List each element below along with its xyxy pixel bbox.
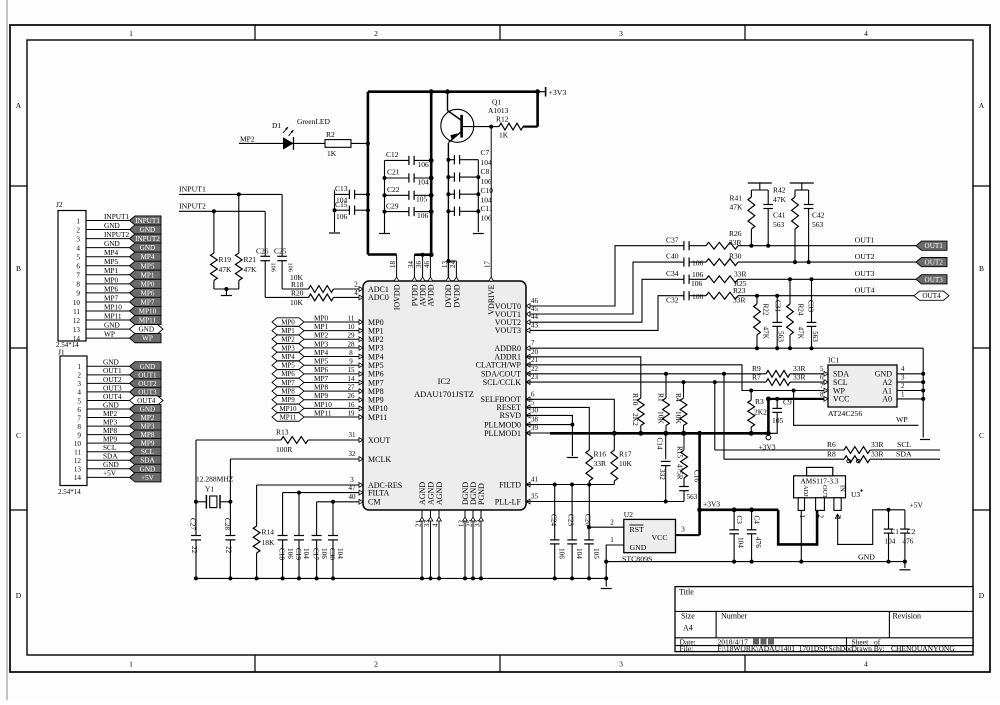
svg-text:INPUT2: INPUT2 [179,202,206,211]
svg-text:SDA: SDA [140,457,155,465]
svg-text:C17: C17 [311,548,319,560]
svg-text:R19: R19 [219,255,232,264]
svg-text:12: 12 [74,457,82,465]
svg-text:MP2: MP2 [140,414,154,422]
svg-text:105: 105 [592,548,600,559]
svg-text:1K: 1K [327,149,337,158]
svg-text:OUT3: OUT3 [138,388,157,396]
svg-text:29: 29 [348,332,356,340]
svg-text:8: 8 [77,423,81,431]
svg-text:MP9: MP9 [281,396,295,404]
svg-text:WP: WP [142,335,153,343]
svg-text:10: 10 [73,299,81,307]
svg-text:OUT1: OUT1 [138,371,157,379]
svg-text:22: 22 [190,546,198,554]
svg-text:4: 4 [901,365,905,373]
svg-text:8: 8 [76,281,80,289]
svg-text:10: 10 [348,323,356,331]
svg-text:34: 34 [407,261,415,269]
svg-text:C27: C27 [189,518,197,530]
svg-text:6: 6 [76,263,80,271]
svg-text:F:\18WORK\ADAU1401_1701DSP.Sch: F:\18WORK\ADAU1401_1701DSP.SchDoc [718,644,853,653]
svg-text:R8: R8 [827,449,836,458]
svg-text:R16: R16 [594,450,607,459]
svg-text:MP1: MP1 [368,326,384,335]
svg-text:+5V: +5V [141,474,155,482]
svg-text:C18: C18 [277,548,285,560]
svg-text:R13: R13 [276,428,289,437]
svg-text:MP10: MP10 [314,400,332,409]
svg-text:B: B [16,264,21,273]
svg-text:D: D [979,591,985,600]
svg-text:SCL/CCLK: SCL/CCLK [483,378,521,387]
svg-text:106: 106 [691,279,703,288]
svg-text:SCL: SCL [141,448,154,456]
svg-text:GND: GND [858,553,875,562]
svg-text:476: 476 [903,538,914,546]
svg-text:MP0: MP0 [140,280,154,288]
svg-text:106: 106 [692,292,704,301]
svg-text:XOUT: XOUT [368,436,390,445]
svg-text:41: 41 [531,476,539,484]
svg-text:4: 4 [864,29,868,38]
svg-text:U2: U2 [624,510,633,519]
svg-text:OUT1: OUT1 [925,242,944,250]
svg-text:R17: R17 [619,450,632,459]
svg-text:16: 16 [348,401,356,409]
svg-text:106: 106 [418,160,430,169]
svg-text:2.54*14: 2.54*14 [58,488,81,496]
svg-text:MP10: MP10 [139,308,157,316]
svg-text:GND: GND [138,326,154,334]
svg-text:4: 4 [76,244,80,252]
svg-text:MP4: MP4 [140,253,154,261]
svg-text:106: 106 [692,270,704,279]
svg-text:ADAU1701JSTZ: ADAU1701JSTZ [414,389,474,399]
svg-text:28: 28 [348,340,356,348]
svg-text:+5V: +5V [910,501,924,510]
svg-text:C42: C42 [812,211,825,220]
svg-text:FILTD: FILTD [499,480,521,489]
svg-text:MP7: MP7 [140,298,154,306]
svg-text:GreenLED: GreenLED [297,117,330,126]
svg-text:INPUT1: INPUT1 [104,212,129,221]
svg-text:40: 40 [349,493,357,501]
svg-text:46: 46 [531,297,539,305]
svg-text:14: 14 [348,375,356,383]
svg-text:C: C [979,431,984,440]
svg-text:33R: 33R [594,459,607,468]
svg-text:File:: File: [680,644,694,653]
svg-text:IC1: IC1 [828,356,840,365]
svg-text:CLATCH/WP: CLATCH/WP [476,361,522,370]
svg-text:47K: 47K [244,265,258,274]
svg-text:MP0: MP0 [368,318,384,327]
svg-text:MP11: MP11 [139,317,157,325]
svg-text:3: 3 [619,660,623,669]
svg-text:MP11: MP11 [314,408,332,417]
svg-text:2: 2 [77,372,81,380]
svg-text:8: 8 [820,390,824,398]
svg-text:C20: C20 [584,514,592,526]
svg-text:R6: R6 [827,440,836,449]
svg-text:A: A [16,101,22,110]
svg-text:C15: C15 [335,200,348,209]
svg-text:33R: 33R [733,296,746,305]
svg-text:106: 106 [481,214,493,223]
svg-text:AT24C256: AT24C256 [828,409,862,418]
svg-text:C26: C26 [256,247,269,256]
svg-text:5: 5 [77,397,81,405]
svg-text:VOUT3: VOUT3 [495,326,521,335]
svg-text:MP2: MP2 [368,335,384,344]
svg-text:104: 104 [736,537,744,548]
svg-text:INPUT1: INPUT1 [135,217,160,225]
svg-text:563: 563 [773,220,785,229]
svg-text:104: 104 [575,548,583,559]
svg-text:1: 1 [76,217,80,225]
svg-text:11: 11 [348,314,355,322]
svg-text:C1: C1 [891,528,900,536]
svg-text:2: 2 [374,660,378,669]
svg-text:C24: C24 [549,514,557,526]
svg-text:2: 2 [374,29,378,38]
svg-text:MP3: MP3 [281,344,295,352]
svg-text:10K: 10K [290,298,304,307]
svg-text:MP3: MP3 [140,423,154,431]
svg-text:C40: C40 [666,252,679,261]
svg-text:3: 3 [77,380,81,388]
svg-text:563: 563 [812,220,824,229]
svg-text:22: 22 [531,365,539,373]
svg-text:GND: GND [104,239,120,248]
svg-text:2: 2 [817,515,825,519]
svg-text:563: 563 [811,331,819,342]
svg-text:R23: R23 [733,286,746,295]
svg-text:MP0: MP0 [104,275,119,284]
svg-text:J1: J1 [58,348,65,357]
svg-text:R4: R4 [674,393,683,402]
svg-text:C4: C4 [752,516,760,525]
svg-text:47K: 47K [762,327,770,340]
svg-text:R2: R2 [326,130,335,139]
svg-text:11: 11 [74,449,81,457]
svg-text:MP4: MP4 [368,352,384,361]
svg-text:MP9: MP9 [140,440,154,448]
svg-text:MP2: MP2 [281,336,295,344]
svg-text:2: 2 [76,226,80,234]
svg-text:13: 13 [441,261,449,269]
svg-text:3: 3 [619,29,623,38]
svg-text:C21: C21 [387,168,400,177]
svg-text:20: 20 [531,348,539,356]
svg-text:36: 36 [415,261,423,269]
svg-text:MP10: MP10 [104,302,122,311]
svg-text:104: 104 [481,158,493,167]
svg-text:2: 2 [610,519,614,527]
svg-text:GND: GND [630,543,647,552]
svg-text:47: 47 [349,484,357,492]
svg-text:106: 106 [692,258,704,267]
svg-text:1: 1 [610,536,614,544]
svg-text:105: 105 [416,195,428,204]
svg-text:1: 1 [129,660,133,669]
svg-text:33R: 33R [729,238,742,247]
svg-text:38: 38 [531,416,539,424]
svg-text:OUT4: OUT4 [137,397,156,405]
svg-text:CM: CM [368,498,380,507]
svg-text:IN: IN [838,485,845,492]
svg-text:ADC0: ADC0 [368,293,389,302]
svg-text:C2: C2 [907,528,916,536]
svg-text:106: 106 [558,548,566,559]
svg-text:12: 12 [73,317,81,325]
svg-text:INPUT1: INPUT1 [179,185,206,194]
svg-text:1: 1 [901,390,905,398]
svg-text:4: 4 [432,523,440,527]
svg-text:Y1: Y1 [205,485,214,494]
svg-text:475R: 475R [676,464,684,480]
svg-text:19: 19 [348,409,356,417]
svg-text:7: 7 [820,382,824,390]
svg-text:33R: 33R [734,270,747,279]
svg-text:R24: R24 [797,304,805,316]
svg-text:6: 6 [77,406,81,414]
svg-text:1K: 1K [499,131,509,140]
svg-text:4: 4 [864,660,868,669]
svg-text:R26: R26 [729,229,742,238]
svg-text:2: 2 [354,281,358,289]
svg-text:U3: U3 [851,490,860,499]
svg-text:GND: GND [140,363,156,371]
svg-text:C32: C32 [666,296,679,305]
svg-text:C3: C3 [735,516,743,525]
svg-text:2: 2 [901,382,905,390]
svg-text:4: 4 [354,289,358,297]
svg-text:104: 104 [336,548,344,559]
svg-text:MP1: MP1 [104,266,119,275]
svg-text:J2: J2 [56,200,63,209]
svg-text:A0: A0 [882,395,892,404]
svg-text:OUT1: OUT1 [855,236,875,245]
svg-text:MP3: MP3 [368,344,384,353]
svg-text:MCLK: MCLK [368,455,391,464]
svg-text:+5V: +5V [103,469,117,478]
svg-text:B: B [979,264,984,273]
svg-text:13: 13 [73,326,81,334]
svg-text:1: 1 [77,363,81,371]
svg-text:106: 106 [286,548,294,559]
svg-text:Title: Title [679,588,694,597]
svg-text:10K: 10K [619,459,633,468]
svg-text:MP7: MP7 [104,293,119,302]
svg-text:VCC: VCC [652,533,668,542]
svg-text:C33: C33 [806,300,814,312]
svg-text:476: 476 [754,537,762,548]
svg-text:MP5: MP5 [281,362,295,370]
svg-text:VDRIVE: VDRIVE [487,284,496,314]
svg-text:27: 27 [348,384,356,392]
svg-text:47K: 47K [730,203,744,212]
svg-text:Size: Size [681,612,695,621]
svg-text:C: C [16,431,21,440]
svg-text:R12: R12 [496,115,509,124]
svg-text:MP7: MP7 [314,374,329,383]
svg-text:7: 7 [531,339,535,347]
svg-text:MP8: MP8 [314,383,329,392]
svg-text:563: 563 [777,331,785,342]
svg-text:MP4: MP4 [281,353,295,361]
svg-text:3: 3 [76,235,80,243]
svg-text:R14: R14 [262,528,275,537]
svg-text:7: 7 [76,272,80,280]
svg-text:MP5: MP5 [140,262,154,270]
svg-text:IC2: IC2 [438,376,451,386]
svg-text:OUT3: OUT3 [925,276,944,284]
svg-text:OUT2: OUT2 [925,259,944,267]
svg-text:332: 332 [658,469,666,480]
svg-text:5: 5 [820,365,824,373]
svg-text:17: 17 [484,261,492,269]
svg-text:+3V3: +3V3 [549,88,567,97]
svg-text:8: 8 [349,349,353,357]
svg-text:R1: R1 [657,393,666,402]
svg-text:31: 31 [349,431,357,439]
svg-text:C34: C34 [666,269,679,278]
svg-text:MP11: MP11 [104,311,122,320]
svg-text:C8: C8 [481,167,490,176]
svg-text:100R: 100R [276,445,292,454]
svg-text:C37: C37 [666,235,679,244]
svg-text:PLL-LF: PLL-LF [495,497,522,506]
svg-text:R7: R7 [752,372,761,381]
svg-text:C13: C13 [335,184,348,193]
svg-text:106: 106 [481,177,493,186]
svg-text:105: 105 [772,416,784,425]
svg-text:C12: C12 [386,150,399,159]
svg-text:VCC: VCC [833,395,849,404]
svg-text:MP6: MP6 [281,370,295,378]
svg-text:AVDD: AVDD [426,284,435,306]
svg-text:MP7: MP7 [281,379,295,387]
svg-text:OUT2: OUT2 [138,380,157,388]
svg-text:106: 106 [270,263,277,272]
svg-text:106: 106 [336,212,348,221]
svg-text:FILTA: FILTA [368,488,390,497]
svg-text:9: 9 [76,290,80,298]
svg-text:MP2: MP2 [240,134,255,143]
svg-text:ADJ: ADJ [802,485,809,497]
svg-text:C25: C25 [274,247,287,256]
svg-text:R3: R3 [755,397,764,406]
svg-text:C28: C28 [223,518,231,530]
svg-text:6: 6 [531,390,535,398]
svg-text:R21: R21 [244,255,257,264]
svg-text:32: 32 [349,450,357,458]
svg-text:MP1: MP1 [140,271,154,279]
svg-text:C41: C41 [773,211,786,220]
svg-text:MP6: MP6 [314,365,329,374]
svg-text:39: 39 [531,424,539,432]
svg-text:GND: GND [104,321,120,330]
svg-text:563: 563 [687,493,698,501]
svg-text:Revision: Revision [893,612,921,621]
svg-text:IOVDD: IOVDD [393,284,402,310]
svg-text:A4: A4 [683,624,693,633]
svg-text:3: 3 [681,526,685,534]
svg-text:1: 1 [129,29,133,38]
svg-text:Number: Number [721,612,748,621]
svg-text:15: 15 [348,366,356,374]
svg-text:106: 106 [417,211,429,220]
svg-text:33R: 33R [793,372,806,381]
svg-text:DVDD: DVDD [452,284,461,307]
svg-text:C23: C23 [567,514,575,526]
svg-text:11: 11 [73,308,80,316]
svg-text:GND: GND [104,221,120,230]
svg-text:C29: C29 [386,201,399,210]
svg-text:MP8: MP8 [140,431,154,439]
svg-text:106: 106 [287,263,294,272]
svg-text:22: 22 [225,546,233,554]
svg-text:INPUT2: INPUT2 [135,235,160,243]
svg-text:2K2: 2K2 [754,408,767,417]
svg-text:5: 5 [76,254,80,262]
svg-text:GND: GND [140,465,156,473]
svg-text:SCL: SCL [897,440,912,449]
svg-text:9: 9 [77,431,81,439]
svg-text:MP8: MP8 [281,388,295,396]
svg-text:7: 7 [77,414,81,422]
svg-text:47K: 47K [219,265,233,274]
svg-text:MP4: MP4 [104,248,119,257]
svg-text:OUT3: OUT3 [855,269,875,278]
svg-text:6: 6 [820,374,824,382]
svg-text:D1: D1 [272,121,281,130]
svg-text:PLLMOD1: PLLMOD1 [484,429,521,438]
svg-text:OUT2: OUT2 [855,252,875,261]
svg-text:12.288MHZ: 12.288MHZ [196,475,234,484]
svg-text:14: 14 [74,474,82,482]
svg-text:2K2: 2K2 [631,413,640,426]
svg-text:MP9: MP9 [314,391,329,400]
svg-text:18: 18 [389,261,397,269]
svg-text:CHENQUANYONG: CHENQUANYONG [891,644,955,653]
svg-text:A: A [979,101,985,110]
svg-text:INPUT2: INPUT2 [104,230,129,239]
svg-text:R42: R42 [773,186,786,195]
svg-text:18K: 18K [262,538,276,547]
svg-text:GND: GND [140,244,156,252]
svg-text:44: 44 [531,313,539,321]
svg-text:C30: C30 [328,548,336,560]
svg-text:R15: R15 [676,446,684,458]
svg-text:10K: 10K [657,411,666,425]
svg-text:OUT: OUT [821,485,828,498]
svg-text:104: 104 [302,548,310,559]
svg-text:45: 45 [531,305,539,313]
svg-text:R41: R41 [730,193,743,202]
svg-text:R20: R20 [291,289,304,298]
svg-text:R30: R30 [729,252,742,261]
svg-text:MP11: MP11 [368,413,387,422]
svg-text:WP: WP [104,330,115,339]
svg-text:MP1: MP1 [281,327,295,335]
svg-text:OUT4: OUT4 [922,292,941,300]
svg-text:MP0: MP0 [281,318,295,326]
svg-text:35: 35 [531,493,539,501]
svg-text:47K: 47K [797,327,805,340]
